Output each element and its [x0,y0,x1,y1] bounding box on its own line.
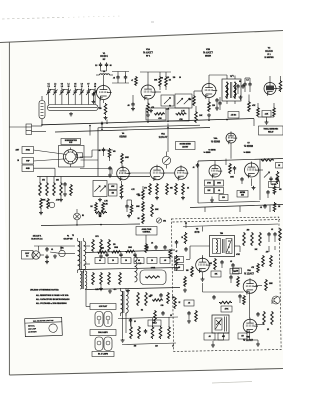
output down ground [122,338,124,340]
svg-text:CR1: CR1 [163,221,166,223]
dial lamp label box 2 [90,330,116,336]
value box 4.5 MC [228,112,239,119]
amp bottom left cap [188,311,190,313]
line input label box [22,251,34,260]
svg-text:C60: C60 [161,305,164,307]
wire gang to V1 [98,107,100,109]
fuse circle F2 [59,250,65,256]
trimmer pair link wires [49,88,56,90]
B+ bus wire lower [80,268,180,270]
amp top bus wire [183,224,278,227]
volume value box 2 [109,191,118,197]
output network drops [130,318,132,326]
svg-text:6CD4: 6CD4 [100,54,108,58]
amp label box mid [230,269,239,275]
svg-text:68: 68 [110,65,112,67]
svg-text:25: 25 [170,315,172,317]
output transformer down wires [122,313,124,338]
tube socket S1 bottom view [63,150,77,164]
low bus junction dots [76,224,78,226]
svg-text:1.5: 1.5 [167,77,169,79]
plate resistors R2 R3 [159,76,162,87]
power transformer lower secondary [80,271,82,289]
resistors under volume box [95,202,98,212]
oscillator ground left [211,198,213,200]
AGC resistor R6 horizontal [154,113,165,115]
transformer secondary taps [85,245,91,247]
svg-text:L10: L10 [139,263,142,265]
svg-text:T1: T1 [230,76,232,78]
svg-text:68: 68 [239,81,241,83]
oscillator mid resistor [229,163,232,174]
rectifier filter resistors [92,239,95,252]
socket bottom cap [64,182,66,184]
svg-text:.01: .01 [218,190,220,192]
svg-text:220: 220 [173,77,176,79]
rectifier ground [100,254,102,256]
tone chain top wire [142,186,144,189]
grid resistor R10 left of mixer [193,95,196,106]
tonal harmonic relay box [259,126,284,135]
svg-text:NOISE REJECTION: NOISE REJECTION [65,140,77,142]
oscillator right value box [269,182,280,188]
limiter cathode resistor [121,181,123,184]
grid capacitor C11 under V2A [132,95,134,102]
amp extra caps mid [232,263,234,265]
plate resistor right of V9A [265,279,268,291]
ground limiter cathode [121,195,123,197]
svg-text:L2: L2 [54,83,56,85]
svg-text:.05: .05 [164,260,166,262]
svg-text:12AU7: 12AU7 [159,135,168,139]
svg-text:4.5 MC: 4.5 MC [231,113,237,116]
cathode resistor R13 47K [248,101,251,112]
svg-text:220: 220 [155,346,158,348]
pot box R7 R8 oscillator adjust [175,94,192,108]
filter choke L10 [135,256,138,282]
volume value box 1 [109,184,118,190]
bus junction arrow [101,122,103,125]
audio tone control box [136,227,157,236]
output network row B resistors [130,326,133,339]
bus drop to noise box [89,126,91,136]
cathode resistor under V8 [191,266,194,277]
amp bottom right value box [238,333,247,339]
dial lamp feed wire [86,306,90,308]
power transformer T2 primary [78,241,80,270]
svg-text:T50: T50 [220,233,223,235]
amp left value boxes [175,257,184,263]
svg-text:½ 6BN6: ½ 6BN6 [244,144,254,148]
tube V6 oscillator top [226,133,236,143]
wire V6 top link [225,159,227,165]
svg-text:RF 1: RF 1 [146,56,150,58]
svg-text:.05: .05 [113,78,115,80]
svg-text:22 METER: 22 METER [264,57,274,59]
resistor horizontal R20 [95,211,107,213]
svg-text:L4: L4 [67,82,69,85]
svg-text:.05: .05 [178,267,180,269]
tone stack resistor chain [142,189,145,200]
ground line caps [46,260,48,262]
amp filler cap mid [230,275,232,277]
output resistors right of T3 [137,292,140,306]
output network extra resistor row A [174,297,177,309]
svg-text:C5: C5 [74,83,76,85]
interstage caps C8b C9b [117,75,119,77]
right top cluster resistor [273,202,276,212]
antenna coil L1 vertical can [39,101,45,119]
svg-text:ALL CAPACITORS IN MICROFARADS: ALL CAPACITORS IN MICROFARADS [36,298,70,301]
ground under mixer cathode [208,113,210,115]
bus drop wire V1 [106,120,108,125]
filter chain caps [106,253,108,255]
wave trap enclosure 2 [168,108,189,121]
svg-text:33: 33 [68,86,70,88]
tube V3 6AU6 IF amplifier [264,83,276,95]
coupling cap V9A [239,294,241,296]
ground under V5B resistor [182,196,184,198]
ground under C10 [93,100,95,102]
svg-text:C3: C3 [61,83,63,85]
svg-text:½ 6AT7: ½ 6AT7 [143,51,153,55]
cathode resistor R1 under V1 [103,100,105,103]
svg-text:SOUND METER: SOUND METER [180,144,192,146]
lower bus wire [85,288,180,290]
socket bottom resistor [70,184,73,196]
svg-text:.02: .02 [98,150,100,152]
ground AGC bank 2 [60,198,62,200]
svg-text:C7: C7 [87,83,89,85]
amp left ground lower [184,288,186,290]
tube V8 6V6 output [196,258,210,272]
ground under volume box [99,198,101,200]
filter value boxes row [95,258,105,264]
coupling capacitors C8 C9 above V1 [100,63,102,65]
svg-text:20: 20 [112,260,114,262]
IF transformer T1 can [222,79,241,101]
svg-text:VHF: VHF [26,160,29,162]
svg-text:1.5: 1.5 [61,86,63,88]
amplifier chassis top inner line [173,220,281,223]
interstage resistor [135,76,138,86]
limiter grid capacitor [109,166,111,168]
svg-text:220: 220 [236,270,239,272]
fine tuning pot R5 [161,95,174,106]
oscillator right cap [241,177,243,179]
svg-text:MIXER: MIXER [205,56,212,58]
svg-text:L4: L4 [103,70,105,73]
wire V2A plate right [155,91,161,93]
oscillator mid cap [234,166,236,168]
phase inverter box [212,315,229,333]
tube V4 6BN6 limiter [117,167,130,180]
svg-text:500: 500 [150,295,153,297]
tiny mark near top [151,21,154,23]
T50 leads [190,245,210,247]
amp V8 feed wire [202,227,204,232]
sheet top border line [0,31,283,43]
ground AGC bank [40,211,42,213]
svg-text:.02: .02 [151,243,153,245]
svg-text:½ 6BN6: ½ 6BN6 [211,140,221,144]
speaker rounded box [140,270,166,285]
amplifier chassis dashed box [171,217,281,351]
meter adjust value box [237,191,248,198]
wire osc bottom bus [198,202,260,204]
svg-text:.02: .02 [230,261,232,263]
svg-text:5Y3: 5Y3 [95,236,98,238]
screen bypass capacitor C10 [93,92,95,94]
svg-text:METER: METER [240,192,246,194]
small trimmer circle [49,202,55,208]
wire V5A to V5B [164,172,175,174]
svg-text:ALL VOLTAGES ± 20% READINGS: ALL VOLTAGES ± 20% READINGS [36,302,67,305]
svg-text:115 V: 115 V [25,253,29,255]
svg-text:½ 12AX7: ½ 12AX7 [244,272,255,276]
AGC cluster resistor row 2 [40,198,43,209]
svg-text:1.5: 1.5 [246,80,248,82]
svg-text:L6: L6 [81,83,83,85]
svg-text:16: 16 [134,321,136,323]
amp internal wires [202,283,204,292]
svg-text:470: 470 [151,106,154,109]
cathode resistor under V5A [149,183,152,195]
bus drop wire right [167,124,169,132]
output down cap [130,318,132,320]
svg-text:6.3V PILOT: 6.3V PILOT [99,306,107,308]
bypass resistor V5 mid [166,183,169,195]
svg-text:2.2: 2.2 [47,86,49,88]
resistor R12 10K [195,111,198,123]
bus junction dots [41,124,43,126]
transistor circle right edge [272,296,280,304]
amp bottom left ground [188,319,190,321]
main B+ bus wire [42,119,254,125]
bus drop wire mixer [208,118,210,121]
cathode resistor R4 under V2A [147,99,149,103]
output network bus lower [122,343,176,345]
amp box inner left components [176,240,178,242]
socket enclosure box [59,146,85,168]
svg-text:CONTROL: CONTROL [143,232,151,234]
svg-text:220: 220 [222,197,225,199]
mid right drops [204,207,206,212]
socket bottom ground [64,192,66,194]
screen network cluster [257,107,260,117]
caps row above speaker [146,245,148,247]
dial lamp pair 2 [95,337,103,351]
cathode resistors under V5B [175,183,178,195]
svg-text:10: 10 [179,77,181,79]
tube V5A 12AU7 sound det [150,166,164,180]
svg-text:20: 20 [151,260,153,262]
dial lamp label box 1 [90,304,116,310]
limiter input caps cluster [103,148,105,150]
oscillator right pot [264,172,269,177]
svg-text:C1: C1 [47,83,49,85]
T50 secondary dots [228,240,230,242]
power top wire [34,245,75,247]
amp left column cap [185,247,187,249]
ground under gang bar [70,112,72,114]
section link wires [167,131,169,152]
svg-text:3.3: 3.3 [74,86,76,88]
sheet scan tint [0,31,283,375]
oscillator left edge cap [197,163,199,165]
ground under V8 [202,277,204,279]
tube V2A 6AT7 RF1 [141,85,155,99]
secondary bus wire [55,128,210,133]
svg-text:330: 330 [99,216,102,218]
tube V9A preamp [243,280,257,294]
svg-text:25: 25 [178,259,180,261]
amp right resistor bank [243,232,246,246]
svg-text:50-60 CYC AC: 50-60 CYC AC [31,237,43,240]
grid capacitor C15 [216,98,218,100]
socket to limiter wire low [81,159,99,161]
svg-text:250: 250 [247,230,250,232]
oscillator shield box left edge [197,161,199,203]
svg-text:6AU6: 6AU6 [265,49,273,53]
line capacitors C30 C31 [46,247,48,249]
tube V6B oscillator [209,165,221,177]
svg-text:68: 68 [94,86,96,88]
amp bottom grounds [212,343,214,345]
output network bus upper [118,317,178,319]
amp V9B right cap [257,312,259,314]
faint top dashed fold line [2,17,64,19]
svg-text:B1: B1 [82,215,84,217]
output network row B cap [145,329,147,331]
ground right column [253,186,255,188]
ground limiter grid [109,173,111,175]
amp V9A under resistor [243,295,246,305]
socket side connector [77,153,83,158]
svg-text:.02: .02 [271,229,273,231]
svg-text:330: 330 [186,270,189,272]
big section wire top [98,125,200,128]
amp right lower resistors [263,311,266,325]
bottom faint smudge line [212,382,252,384]
wire gang grid bus [94,89,96,93]
amp right caps [268,232,270,234]
amp wire top right drop [268,246,270,252]
tube V5B 12AU7 [175,167,188,180]
oscillator coil L4 above V1 [100,74,110,75]
wire V4 to V5A [128,172,150,174]
wire oscillator right drop [259,159,261,200]
sheet bottom border line [9,369,283,376]
svg-text:10: 10 [125,260,127,262]
volume control box with pots [93,181,107,197]
svg-text:IF 1: IF 1 [267,54,270,56]
mid right bus wire [190,205,283,208]
ground under input caps [240,95,242,97]
svg-text:68: 68 [161,78,163,80]
power transformer T2 core [79,241,81,270]
AGC resistor bank [39,177,41,183]
noise rejection box [61,139,81,145]
antenna input box GND [22,165,34,172]
bus drop to relay box [253,119,255,126]
svg-text:ON-OFF SW: ON-OFF SW [63,238,73,240]
svg-text:6V6: 6V6 [195,230,200,234]
plate resistor R14 right edge [279,80,282,92]
svg-text:5 MC: 5 MC [69,142,72,144]
bus drop wire V2A [147,118,149,123]
mid ground power [54,254,56,256]
oscillator shield box top edge [198,159,283,162]
station selector box [25,317,63,336]
ground inside trap 1 [150,109,152,111]
svg-text:6BN6: 6BN6 [119,134,127,138]
amp left resistor lower [184,276,187,287]
svg-text:25: 25 [181,237,183,239]
ground under screen network [266,120,268,122]
svg-text:.01: .01 [51,249,53,251]
ground under C15 [216,106,218,108]
svg-text:SW1: SW1 [60,248,63,250]
antenna input box 300ohm [22,147,34,154]
oscillator value boxes cluster [205,180,214,186]
svg-text:22: 22 [81,86,83,88]
amp filler box mid [233,268,242,274]
ground output B resistors [100,287,102,289]
ground under R1 [105,116,107,118]
filter chain resistors [97,251,107,253]
tube V9B phase splitter [243,319,257,333]
field coil label box [148,320,161,326]
svg-text:.05: .05 [127,105,129,107]
power transformer T2 secondary [84,241,86,270]
wire gang left down [42,121,44,125]
sound meter adjust box [176,142,196,150]
amp bottom value boxes [204,333,215,340]
svg-text:220: 220 [99,108,102,110]
amp mid column box [211,271,221,277]
svg-text:270: 270 [113,244,116,246]
diode crystal D1 [156,218,161,223]
plate load coil right of V7 [261,159,274,161]
amp bottom left resistor [195,310,198,322]
AC plug pilot circle [32,251,40,259]
antenna terminal strip [26,124,32,135]
svg-text:220: 220 [212,105,215,107]
oscillator right resistor [276,171,279,184]
output mid resistors [154,310,157,322]
amp extra resistor V9A left [237,276,240,287]
wave trap enclosure 1 [146,108,166,120]
tuning meter M1 [162,156,170,164]
wire socket to limiter [80,156,92,158]
svg-text:.01: .01 [260,207,262,209]
output B resistors row [92,272,95,285]
amp bottom left value box [184,300,194,306]
ground under V5A resistor [156,196,158,198]
coupling caps right column [270,177,272,179]
output caps [160,293,162,295]
ground mid under [128,214,130,216]
svg-text:115-125 V.: 115-125 V. [33,236,42,238]
big section wire left drop [97,128,99,176]
ground under C11 [132,107,134,109]
noise resistor stack mid [145,243,148,253]
svg-text:1.5: 1.5 [95,65,97,67]
svg-text:.05: .05 [188,303,190,305]
output transformer T50 box [210,236,235,257]
amp mid column resistor [214,258,217,270]
